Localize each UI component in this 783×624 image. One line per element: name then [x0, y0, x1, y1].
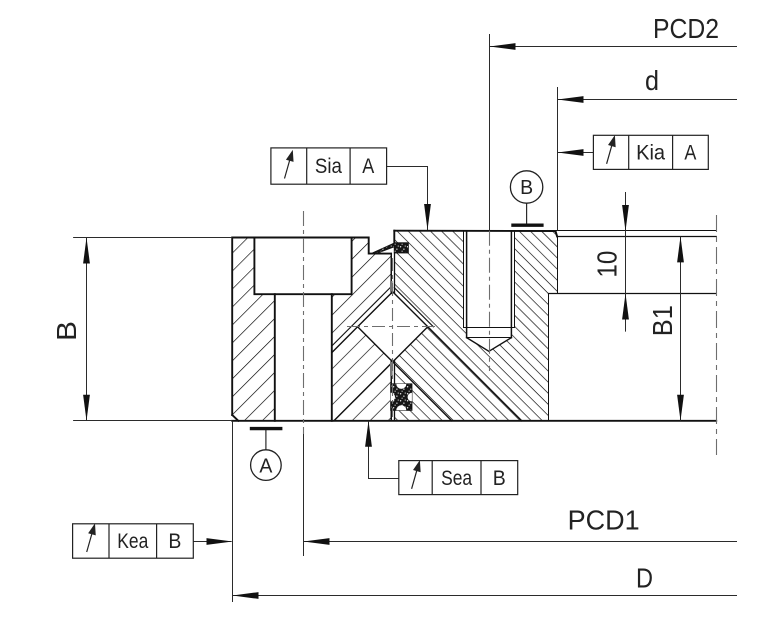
gear rim root line: [549, 293, 717, 295]
svg-text:PCD2: PCD2: [653, 13, 719, 44]
datum A target bar: [250, 427, 283, 430]
Sea feature control frame: [399, 461, 518, 495]
svg-text:B: B: [493, 467, 506, 490]
svg-text:B: B: [51, 321, 82, 341]
drill shoulder line: [467, 337, 512, 339]
runout symbol in Sia frame: [285, 157, 291, 179]
raceway line from bottom vertex down-right: [393, 362, 452, 421]
cross roller cavity (diamond): [358, 292, 428, 362]
B1 dimension line: [680, 236, 682, 420]
d dimension line: [558, 99, 738, 101]
top seal groove cavity: [394, 243, 408, 253]
Kea leader arrowhead: [207, 538, 233, 545]
tapped hole thread major diameter lines: [464, 231, 515, 328]
tapped hole cavity: [464, 231, 515, 352]
PCD1 dimension line: [304, 541, 738, 543]
gear rim top land line: [557, 236, 716, 238]
roller vertical centerline: [392, 258, 394, 417]
Kia leader line: [558, 152, 594, 154]
svg-text:A: A: [362, 155, 374, 178]
raceway clearance line upper-left: [332, 287, 391, 346]
gap shading segments near roller vertices: [390, 281, 393, 376]
svg-text:B: B: [520, 177, 533, 199]
B1 bottom arrowhead: [677, 395, 684, 421]
drill point cone: [467, 338, 512, 352]
Kia feature control frame: [593, 135, 708, 169]
gap wall right ring side: [394, 253, 396, 421]
left ring bottom chamfer: [232, 415, 238, 421]
B dimension line: [86, 238, 88, 421]
left ring outline: left face, top face, seal step: [232, 238, 391, 416]
Sia leader arrowhead: [424, 204, 431, 230]
roller horizontal centerline: [347, 326, 437, 328]
datum B stem: [526, 203, 528, 225]
datum A stem: [265, 429, 267, 450]
raceway clearance line upper-right: [394, 288, 433, 327]
cross roller (diamond): [358, 292, 428, 362]
Kia leader arrowhead: [558, 149, 584, 156]
Sea leader line: [369, 421, 399, 479]
datum B target bar: [511, 223, 543, 226]
Sia feature control frame: [271, 148, 387, 184]
tapped hole minor diameter lines: [467, 231, 512, 338]
PCD1 extension line: [303, 434, 305, 556]
Sea leader arrowhead: [365, 421, 372, 447]
PCD2 extension line: [489, 34, 491, 231]
svg-text:B1: B1: [647, 305, 678, 336]
svg-text:Kea: Kea: [117, 530, 148, 553]
PCD2 dimension line: [490, 46, 738, 48]
counterbore walls and bottom: [254, 238, 351, 295]
inner ring section hatching (right ring with tapped hole and gear rim): [394, 231, 557, 421]
right section break centerline: [716, 215, 718, 455]
bolt through-hole cavity: [275, 294, 332, 420]
raceway clearance strip upper-right: [393, 288, 434, 327]
raceway line upper-right extension: [428, 327, 522, 421]
counterbore cavity of bolt hole: [254, 237, 351, 295]
raceway line from bottom vertex down-left: [334, 362, 393, 421]
B bottom arrowhead: [83, 395, 90, 421]
svg-text:B: B: [168, 530, 181, 553]
10 top arrowhead: [622, 205, 629, 231]
runout symbol in Kea frame: [87, 531, 93, 553]
gear rim boundary lower vertical: [548, 294, 550, 421]
svg-text:PCD1: PCD1: [568, 505, 640, 536]
top lip seal (elastomer, speckled): [373, 243, 409, 254]
right ring top face with chamfer: [394, 231, 557, 237]
10 dimension line: [625, 192, 627, 332]
D extension line: [232, 421, 234, 602]
B bottom extension line: [73, 420, 232, 422]
outer ring section hatching (left ring with mounting bolt hole): [232, 238, 391, 421]
D arrowhead: [233, 592, 259, 599]
PCD2 arrowhead: [490, 43, 516, 50]
B1 top arrowhead: [677, 236, 684, 262]
Kea feature control frame: [73, 524, 194, 558]
raceway clearance strip upper-left: [332, 287, 393, 353]
gap wall left ring side: [390, 254, 392, 421]
runout symbol in Kia frame: [607, 142, 613, 164]
svg-text:A: A: [684, 142, 696, 165]
svg-text:d: d: [645, 65, 659, 96]
top face extension line over gear rim: [556, 230, 717, 232]
tapped hole centerline: [489, 231, 491, 371]
d extension line: [557, 87, 559, 231]
svg-text:10: 10: [592, 251, 623, 278]
runout symbol in Sea frame: [412, 467, 418, 489]
svg-text:A: A: [259, 455, 273, 477]
raceway line lower-left extension: [332, 327, 358, 353]
bottom face of both rings: [232, 420, 716, 422]
bolt hole centerline: [303, 211, 305, 434]
B top arrowhead: [83, 238, 90, 264]
B top extension line: [73, 237, 232, 239]
thread end line: [464, 327, 515, 329]
datum A circle: [251, 450, 282, 481]
datum B circle: [510, 171, 542, 203]
D dimension line: [233, 595, 738, 597]
10 bottom arrowhead: [622, 294, 629, 320]
d arrowhead: [558, 96, 584, 103]
gear rim boundary upper vertical: [557, 237, 559, 294]
PCD1 arrowhead: [304, 538, 330, 545]
svg-text:D: D: [636, 562, 653, 593]
svg-text:Kia: Kia: [636, 142, 665, 165]
right ring upper left edge: [393, 231, 395, 243]
svg-text:Sea: Sea: [441, 467, 472, 490]
Sia leader line: [387, 167, 428, 231]
bottom quad-ring seal (elastomer, speckled): [391, 384, 412, 410]
Kea leader line: [193, 541, 231, 543]
svg-text:Sia: Sia: [315, 155, 342, 178]
ring separation gap slot: [391, 254, 394, 421]
bolt hole walls: [275, 294, 332, 421]
